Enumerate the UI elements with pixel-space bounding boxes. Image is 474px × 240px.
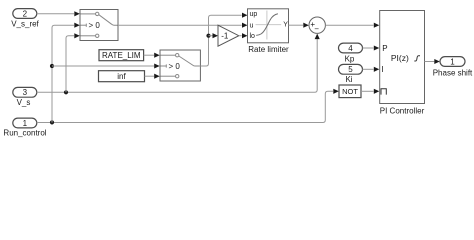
wire V_s_ref to switch1 in1	[37, 11, 80, 16]
svg-text:> 0: > 0	[89, 21, 101, 30]
svg-text:−: −	[314, 25, 319, 34]
constant inf	[99, 71, 145, 82]
wire Run_control riser to switch1 control	[52, 25, 74, 122]
wire Ki to PI I	[363, 68, 374, 70]
svg-text:Kp: Kp	[345, 54, 355, 63]
PI controller block	[380, 11, 425, 116]
constant 4 (Kp)	[339, 43, 363, 63]
constant RATE_LIM	[99, 50, 144, 61]
svg-text:5: 5	[348, 65, 353, 74]
wire inf to switch2 in3	[145, 75, 155, 77]
inport 1 Run_control	[3, 118, 46, 138]
svg-text:> 0: > 0	[169, 62, 181, 71]
wire Run_control to NOT (up at x=325.3)	[37, 91, 333, 122]
svg-text:-1: -1	[221, 31, 229, 40]
svg-text:Y: Y	[283, 21, 288, 28]
junction on V_s wire	[64, 90, 68, 94]
svg-text:Ki: Ki	[345, 75, 352, 84]
gain -1	[218, 25, 239, 46]
svg-text:PI Controller: PI Controller	[380, 106, 425, 115]
svg-text:P: P	[382, 44, 387, 53]
wire V_s branch to switch1 in3	[66, 33, 80, 92]
wire RATE_LIM to switch2 in1	[144, 54, 154, 56]
svg-text:4: 4	[348, 44, 353, 53]
svg-text:Run_control: Run_control	[3, 129, 46, 138]
NOT block	[339, 85, 361, 98]
wire switch2 out up to rate limiter up	[200, 15, 241, 66]
wire rate limiter Y to sum	[289, 24, 304, 26]
switch SW2	[160, 50, 200, 81]
wire branch to gain	[209, 35, 214, 37]
wire gain to rate limiter lo	[239, 35, 242, 37]
svg-text:up: up	[250, 11, 258, 18]
junction control branch	[50, 64, 54, 68]
wire NOT out to PI reset	[361, 90, 374, 92]
wire control branch to switch2 control	[52, 65, 154, 67]
svg-text:NOT: NOT	[342, 87, 358, 96]
svg-text:lo: lo	[250, 33, 256, 40]
switch SW1	[80, 10, 118, 41]
constant 5 (Ki)	[339, 64, 363, 83]
outport 1 Phase shift	[433, 57, 473, 78]
svg-text:u: u	[250, 22, 254, 29]
svg-text:Rate limiter: Rate limiter	[248, 45, 289, 54]
wire Kp to PI P	[363, 47, 374, 49]
wire switch1 out to rate limiter u	[118, 24, 242, 26]
inport 3 V_s	[13, 87, 37, 107]
svg-text:inf: inf	[117, 72, 126, 81]
sum	[309, 17, 325, 34]
junction gain branch	[206, 34, 210, 38]
svg-text:V_s_ref: V_s_ref	[11, 20, 39, 29]
wire PI out to outport	[425, 61, 435, 63]
inport 2 V_s_ref	[11, 9, 39, 29]
svg-text:1: 1	[450, 57, 455, 66]
svg-text:2: 2	[23, 9, 28, 18]
junction Run_control riser	[50, 120, 54, 124]
svg-text:PI(z): PI(z)	[391, 53, 409, 63]
rate limiter block	[248, 9, 290, 54]
svg-text:RATE_LIM: RATE_LIM	[102, 51, 141, 60]
svg-text:3: 3	[23, 88, 28, 97]
svg-text:1: 1	[23, 119, 28, 128]
svg-text:Phase shift: Phase shift	[433, 68, 473, 77]
wire sum to PI in	[325, 24, 373, 26]
wire V_s to sum (up at x=317.2)	[37, 39, 317, 93]
svg-text:I: I	[382, 65, 384, 74]
svg-text:V_s: V_s	[17, 98, 31, 107]
